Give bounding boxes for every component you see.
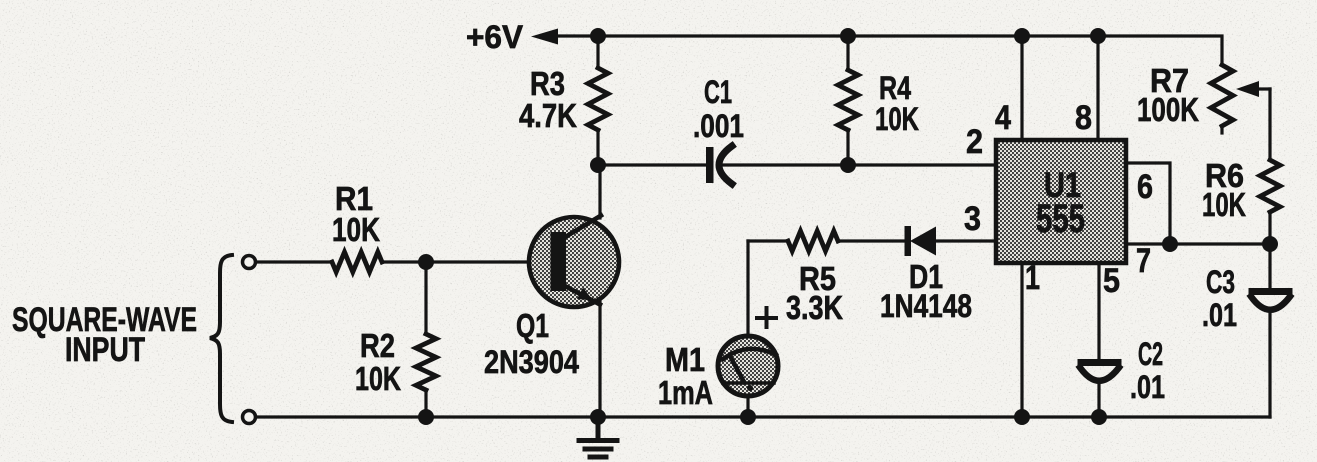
svg-text:C1: C1 [704,74,732,110]
wire input top / base wire [256,260,552,263]
wire R3 branch leads [596,36,599,165]
wire C1 to R4 node [722,163,848,166]
svg-text:1: 1 [1025,259,1040,297]
wire node R3-C1 to C1 [598,163,705,166]
node junction at 1099,417 [1091,409,1107,425]
label R7 [1150,62,1189,99]
svg-text:2N3904: 2N3904 [484,344,579,380]
label C3 [1206,264,1235,300]
node meter plus sign [757,308,776,327]
resistor R1 [332,252,382,272]
node input terminal top [243,256,256,269]
svg-text:2: 2 [966,123,983,161]
svg-text:C2: C2 [1138,336,1163,372]
pin 6 [1137,168,1153,206]
ground [579,417,617,457]
value R5 3.3K [786,289,843,326]
svg-text:1N4148: 1N4148 [880,288,972,324]
wire pin 8 lead [1096,36,1099,140]
label Q1 [516,307,549,344]
pin 8 [1075,99,1092,137]
label R6 [1205,157,1244,194]
wire pin 7 lead [1126,242,1270,245]
pin 3 [964,200,981,238]
svg-text:4: 4 [995,99,1011,137]
wire C3 leads [1268,244,1271,417]
meter M1 [718,336,778,396]
svg-text:.01: .01 [1130,369,1165,405]
node junction at 1022,417 [1014,409,1030,425]
svg-text:5: 5 [1103,262,1120,300]
node junction at 1098,36 [1090,28,1106,44]
resistor R3 [588,68,608,130]
label M1 [665,341,705,378]
node junction at 848,36 [840,28,856,44]
wire meter M1 leads [746,241,749,417]
svg-text:.001: .001 [693,108,744,144]
svg-text:Q1: Q1 [516,307,549,344]
label C2 [1138,336,1163,372]
svg-text:10K: 10K [332,211,380,248]
transistor Q1 [529,216,619,308]
wire Q1 collector [598,165,601,218]
svg-text:C3: C3 [1206,264,1235,300]
node junction at 748,417 [740,409,756,425]
node junction at 598,36 [590,28,606,44]
pin 1 [1025,259,1040,297]
pin 2 [966,123,983,161]
node junction at 598,417 [590,409,606,425]
pin 7 [1136,242,1151,280]
node junction at 1022,36 [1014,28,1030,44]
value R4 10K [875,101,919,137]
svg-text:M1: M1 [665,341,705,378]
wire +6V top rail [552,36,1222,65]
capacitor C1 [706,146,732,184]
value C1 .001 [693,108,744,144]
wire pin 4 lead [1020,36,1023,140]
svg-text:100K: 100K [1137,91,1199,128]
value R2 10K [355,360,401,397]
node +6V arrow [531,29,558,45]
value C3 .01 [1202,297,1237,333]
value D1 1N4148 [880,288,972,324]
value R7 100K [1137,91,1199,128]
label R1 [335,180,373,217]
wire R4 branch leads [846,36,849,165]
wire pin 5 lead to C2 [1097,263,1100,417]
svg-text:.01: .01 [1202,297,1237,333]
wire bottom ground rail [256,415,1270,418]
pin 4 [995,99,1011,137]
value R6 10K [1202,186,1246,223]
node junction at 426,417 [418,409,434,425]
node junction at 598,165 [590,157,606,173]
node input brace [210,255,232,422]
svg-text:R2: R2 [360,327,395,364]
svg-text:4.7K: 4.7K [519,97,577,134]
node junction at 426,262 [418,254,434,270]
node junction at 848,165 [840,157,856,173]
label D1 [909,258,943,295]
label C1 [704,74,732,110]
wire pin 1 lead [1020,263,1023,417]
diode D1 [905,226,937,256]
svg-text:8: 8 [1075,99,1092,137]
resistor R7 leads [1220,126,1223,133]
wire D1 to pin 3 [936,239,996,242]
value Q1 2N3904 [484,344,579,380]
resistor R4 [838,70,858,130]
resistor R5 [788,231,838,251]
wire R5 to D1 [838,239,904,242]
node junction at 1270,244 [1262,236,1278,252]
resistor R7 [1211,65,1233,126]
op-amp U1 555 box [996,140,1126,263]
svg-text:10K: 10K [355,360,401,397]
svg-text:3.3K: 3.3K [786,289,843,326]
label R2 [360,327,395,364]
node R7 wiper arrowhead [1236,81,1259,97]
pin 5 [1103,262,1120,300]
resistor R2 [416,334,436,390]
value C2 .01 [1130,369,1165,405]
value R1 10K [332,211,380,248]
svg-text:6: 6 [1137,168,1153,206]
svg-text:10K: 10K [1202,186,1246,223]
wire Q1 emitter to ground rail [598,300,601,417]
svg-text:INPUT: INPUT [65,331,145,369]
svg-text:1mA: 1mA [658,374,713,411]
value U1 555 [1036,197,1085,241]
node junction at 1170,244 [1162,236,1178,252]
value R3 4.7K [519,97,577,134]
svg-text:10K: 10K [875,101,919,137]
label R5 [799,260,836,297]
svg-text:3: 3 [964,200,981,238]
label +6V [466,19,524,55]
wire R7 wiper [1253,87,1270,90]
label R3 [530,65,565,102]
wire R5 left lead [748,239,788,242]
value M1 1mA [658,374,713,411]
svg-text:7: 7 [1136,242,1151,280]
node input terminal bottom [243,411,256,424]
resistor R6 [1260,160,1280,212]
wire pin 6 lead [1126,163,1170,244]
capacitor C3 [1251,292,1290,310]
label U1 [1044,166,1081,205]
wire R6 leads [1268,89,1271,244]
label R4 [879,70,911,106]
label INPUT [65,331,145,369]
wire R2 branch leads [424,262,427,417]
capacitor C2 [1080,363,1119,381]
wire pin 2 lead [848,163,996,166]
svg-text:+6V: +6V [466,19,524,55]
svg-text:555: 555 [1036,197,1085,241]
label SQUARE-WAVE [12,301,197,339]
